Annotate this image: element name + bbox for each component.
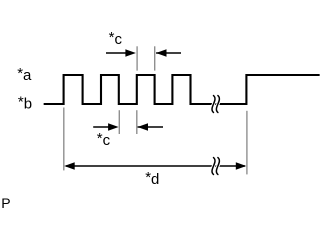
extension line bottom-left of lower *c (fall2) (118, 110, 120, 134)
lower *c right arrow (138, 123, 164, 130)
*d dimension line with outward arrowheads (64, 162, 246, 169)
upper *c right arrow (156, 49, 181, 56)
extension line right of *d (rise5) (246, 111, 248, 175)
break symbol on *d dimension line (212, 158, 219, 175)
extension line bottom-right of lower *c (rise3) (136, 110, 138, 134)
svg-text:*d: *d (145, 169, 159, 188)
extension line left of *d (rise1) (63, 108, 65, 171)
lower *c left arrow (93, 123, 118, 130)
extension line top-right of *c (fall3) (154, 46, 156, 70)
waveform square-wave trace (45, 75, 319, 104)
svg-text:*c: *c (97, 130, 111, 149)
svg-text:*c: *c (109, 29, 123, 48)
upper *c left arrow (106, 49, 136, 56)
extension line top-left of *c (rise3) (136, 46, 138, 70)
break symbol on waveform low line (212, 96, 219, 113)
svg-text:*a: *a (17, 65, 32, 84)
svg-text:*b: *b (18, 94, 32, 113)
svg-text:P: P (1, 195, 10, 210)
